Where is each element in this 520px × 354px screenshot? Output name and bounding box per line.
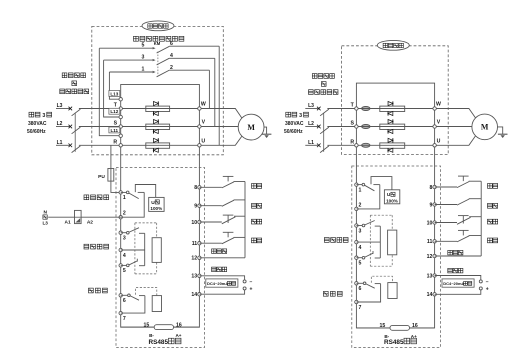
programmable relay coil (right) bbox=[388, 283, 397, 299]
label 3 bbox=[142, 55, 145, 61]
svg-text:15: 15 bbox=[144, 322, 150, 328]
svg-text:380VAC: 380VAC bbox=[28, 121, 47, 127]
svg-text:10: 10 bbox=[427, 220, 433, 226]
wire U to motor (right) bbox=[436, 136, 475, 145]
label RS485通信 (right) bbox=[384, 338, 416, 346]
svg-text:9: 9 bbox=[430, 202, 433, 208]
programmable relay coil (left) bbox=[152, 296, 161, 312]
svg-text:B-: B- bbox=[149, 333, 154, 338]
terminal 1 (right) bbox=[355, 183, 362, 193]
wire coil A2 to terminal 2 (left) bbox=[81, 216, 121, 218]
terminal 14 (left) bbox=[191, 292, 201, 298]
terminal 11 (right) bbox=[427, 239, 436, 245]
condition box U达100% (right) bbox=[384, 190, 399, 204]
label oval 主电路部 (left) bbox=[142, 21, 174, 31]
terminal 9 (left) bbox=[194, 204, 201, 210]
svg-text:+: + bbox=[486, 287, 489, 293]
terminal 7 (right) bbox=[355, 300, 362, 311]
svg-text:1: 1 bbox=[359, 187, 362, 193]
wire V to motor (right) bbox=[436, 126, 472, 128]
svg-text:L13: L13 bbox=[110, 91, 118, 96]
bypass contactor KM contact 3-4 (left) bbox=[104, 58, 215, 65]
main circuit dashed enclosure (right) bbox=[342, 46, 449, 155]
svg-text:+: + bbox=[250, 287, 253, 293]
wire terminal 14 to plus (right) bbox=[435, 290, 481, 294]
label RS485通信 (left) bbox=[149, 338, 181, 346]
label A1 bbox=[65, 219, 71, 225]
wire terminal 12 common (left) bbox=[199, 257, 245, 259]
wire terminal 13 to minus (right) bbox=[435, 276, 481, 280]
fault relay dashed outline (right) bbox=[370, 215, 392, 266]
terminal 5 (left) bbox=[119, 264, 126, 275]
svg-text:4: 4 bbox=[123, 253, 126, 259]
wire contact to U100% box (left) bbox=[135, 185, 155, 198]
wire W to motor (right) bbox=[436, 109, 475, 118]
contactor coil KM A1-A2 (left) bbox=[75, 210, 82, 223]
button common bus (right) bbox=[480, 181, 482, 256]
fault relay dashed outline (left) bbox=[135, 223, 157, 274]
svg-text:2: 2 bbox=[359, 202, 362, 208]
svg-text:2: 2 bbox=[170, 65, 173, 71]
terminal plus (right) bbox=[479, 287, 488, 293]
terminal 12 (left) bbox=[191, 256, 201, 262]
fault output contact 5 (right) bbox=[356, 251, 380, 259]
svg-text:L1: L1 bbox=[308, 140, 314, 146]
wire contact3 to L12 terminal bbox=[104, 60, 121, 117]
terminal T (right) bbox=[351, 103, 358, 111]
terminal L11 (left) bbox=[109, 127, 123, 137]
wire L2 input phase (right) bbox=[305, 125, 356, 134]
svg-text:S: S bbox=[114, 121, 118, 127]
svg-text:L11: L11 bbox=[110, 128, 118, 133]
label 公共端 analog (right) bbox=[448, 268, 463, 273]
label B- (left) bbox=[149, 333, 154, 338]
terminal V (left) bbox=[198, 120, 206, 129]
svg-text:13: 13 bbox=[191, 274, 197, 280]
terminal 6 (left) bbox=[119, 294, 126, 305]
svg-text:5: 5 bbox=[142, 43, 145, 49]
SCR module phase S (right) bbox=[380, 119, 405, 133]
terminal 12 (right) bbox=[427, 254, 437, 260]
fuse ellipse (right, y=126.5) bbox=[362, 125, 370, 129]
svg-text:14: 14 bbox=[191, 292, 197, 298]
analog output box DC4~20mA输出 (right) bbox=[442, 279, 474, 287]
terminal 14 (right) bbox=[427, 292, 437, 298]
svg-text:−: − bbox=[250, 279, 253, 285]
svg-text:A1: A1 bbox=[65, 219, 71, 225]
terminal U (right) bbox=[433, 138, 441, 147]
svg-text:U: U bbox=[201, 138, 205, 144]
label 15 (right) bbox=[380, 323, 386, 329]
svg-text:RS485: RS485 bbox=[149, 339, 169, 346]
svg-text:L3: L3 bbox=[43, 221, 49, 226]
label 50/60Hz (left) bbox=[27, 129, 46, 135]
condition box U达100% (left) bbox=[149, 197, 164, 211]
terminal W (left) bbox=[198, 102, 206, 111]
wire contact6 to U line bbox=[218, 46, 220, 145]
svg-text:R: R bbox=[350, 140, 354, 146]
bypass contactor KM contact 5-6 (left) bbox=[99, 46, 219, 53]
terminal V (right) bbox=[433, 120, 441, 129]
fault relay coil (right) bbox=[388, 230, 397, 255]
ground (left motor) bbox=[262, 134, 272, 138]
label 6 bbox=[170, 41, 173, 47]
svg-text:5: 5 bbox=[123, 268, 126, 274]
contactor mechanical linkage dashed (left) bbox=[157, 52, 159, 76]
terminal plus (left) bbox=[243, 287, 252, 293]
wire R to PU fuse bbox=[111, 145, 121, 192]
svg-text:RS485: RS485 bbox=[384, 339, 404, 346]
terminal minus (right) bbox=[479, 279, 488, 285]
svg-text:R: R bbox=[113, 140, 117, 146]
svg-text:12: 12 bbox=[191, 256, 197, 262]
svg-text:3: 3 bbox=[123, 236, 126, 242]
svg-text:3: 3 bbox=[359, 228, 362, 234]
terminal 11 (left) bbox=[192, 241, 201, 247]
reset button 复位 (right) bbox=[435, 176, 482, 188]
svg-text:2: 2 bbox=[123, 211, 126, 217]
svg-text:7: 7 bbox=[123, 316, 126, 322]
svg-text:8: 8 bbox=[430, 185, 433, 191]
circuit breaker QF linkage (left) bbox=[74, 113, 76, 152]
programmable relay dashed outline (right) bbox=[371, 276, 392, 283]
terminal 2 (right) bbox=[355, 202, 362, 210]
wire R to U (left) bbox=[122, 144, 197, 146]
label 配旁路电磁接触器 (left) bbox=[134, 36, 184, 41]
svg-text:L12: L12 bbox=[110, 109, 118, 114]
label N 或 L3 (left) bbox=[43, 210, 49, 226]
terminal 8 (left) bbox=[194, 185, 201, 191]
terminal 1 (left) bbox=[119, 191, 126, 202]
motor M (left) bbox=[238, 114, 264, 140]
wire contact to U100% box (right) bbox=[371, 177, 392, 190]
spare switch 备用 (left) bbox=[199, 200, 245, 206]
wire terminal 12 common (right) bbox=[435, 255, 482, 257]
label L1 (left) bbox=[57, 140, 63, 146]
svg-text:3: 3 bbox=[299, 113, 302, 119]
svg-text:M: M bbox=[481, 123, 489, 132]
svg-text:3: 3 bbox=[42, 113, 45, 119]
svg-text:M: M bbox=[247, 123, 255, 132]
terminal 10 (right) bbox=[427, 220, 437, 226]
button common bus (left) bbox=[244, 182, 246, 258]
svg-text:11: 11 bbox=[192, 241, 198, 247]
wire L3 input phase (left) bbox=[56, 107, 121, 116]
svg-text:V: V bbox=[202, 120, 206, 126]
wire motor to ground (left) bbox=[264, 127, 267, 134]
label 可编程 (right) bbox=[323, 291, 342, 296]
svg-text:14: 14 bbox=[427, 292, 433, 298]
fault output contact 3 (right) bbox=[356, 221, 380, 259]
svg-text:KM: KM bbox=[154, 41, 161, 46]
wire motor to ground (right) bbox=[498, 127, 503, 134]
label 380VAC (left) bbox=[28, 121, 47, 127]
control section dashed enclosure (left) bbox=[116, 168, 205, 348]
label 16 (left) bbox=[176, 322, 182, 328]
motor M (right) bbox=[472, 114, 498, 140]
svg-text:A2: A2 bbox=[87, 219, 93, 225]
wire R to U (right) bbox=[358, 144, 433, 146]
label 停止 (left) bbox=[252, 219, 262, 224]
wire contact5 to L11 terminal bbox=[99, 48, 120, 136]
terminal 13 (left) bbox=[191, 274, 201, 280]
start button 起动 (right) bbox=[435, 230, 482, 242]
main circuit dashed enclosure (left) bbox=[92, 26, 224, 154]
svg-text:V: V bbox=[437, 120, 441, 126]
wire L1 input phase (right) bbox=[305, 144, 356, 153]
wire W to motor (left) bbox=[201, 109, 242, 119]
programmable contact 6-7 (left) bbox=[121, 294, 145, 313]
svg-text:4: 4 bbox=[359, 245, 362, 251]
fault output contact 5 (left) bbox=[121, 259, 145, 267]
terminal R (right) bbox=[350, 140, 358, 148]
label KM bbox=[154, 41, 161, 46]
svg-text:100%: 100% bbox=[386, 198, 398, 203]
label 公共端 buttons (right) bbox=[448, 250, 463, 255]
label 公共端 analog (left) bbox=[212, 267, 227, 272]
fuse ellipse (right, y=108.5) bbox=[362, 107, 370, 111]
label A+ (right) bbox=[411, 334, 417, 339]
bypass output contact (left) bbox=[121, 191, 145, 217]
label L1 (right) bbox=[308, 140, 314, 146]
terminal 9 (right) bbox=[430, 202, 437, 208]
terminal 7 (left) bbox=[119, 311, 126, 322]
terminal R (left) bbox=[113, 140, 122, 148]
label 380VAC (right) bbox=[285, 121, 304, 127]
terminal W (right) bbox=[433, 102, 441, 111]
circuit breaker QF linkage (right) bbox=[323, 113, 325, 152]
fault output contact 3 (left) bbox=[121, 228, 145, 266]
reset button 复位 (left) bbox=[199, 176, 245, 188]
wire contact1 to L13 terminal bbox=[109, 72, 120, 99]
programmable relay dashed outline (left) bbox=[136, 288, 157, 296]
label L2 (left) bbox=[57, 121, 63, 127]
label 4 bbox=[170, 53, 173, 59]
terminal 4 (left) bbox=[119, 248, 126, 258]
bypass output contact (right) bbox=[356, 183, 379, 209]
svg-text:U: U bbox=[437, 138, 441, 144]
terminal T (left) bbox=[114, 103, 123, 111]
label 15 (left) bbox=[144, 322, 150, 328]
label 公共端 buttons (left) bbox=[212, 249, 227, 254]
terminal S (right) bbox=[350, 121, 358, 129]
svg-text:7: 7 bbox=[359, 305, 362, 311]
analog output box DC4~20mA输出 (left) bbox=[206, 279, 238, 287]
terminal 6 (right) bbox=[355, 282, 362, 293]
svg-text:380VAC: 380VAC bbox=[285, 121, 304, 127]
svg-text:1: 1 bbox=[123, 195, 126, 201]
wire contact2 to W line bbox=[208, 70, 210, 108]
label 16 (right) bbox=[412, 323, 418, 329]
termination resistor (right) bbox=[390, 325, 410, 330]
svg-text:W: W bbox=[201, 102, 206, 108]
svg-text:5: 5 bbox=[359, 261, 362, 267]
svg-text:50/60Hz: 50/60Hz bbox=[27, 129, 46, 135]
svg-text:50/60Hz: 50/60Hz bbox=[284, 129, 303, 135]
fuse PU (left) bbox=[98, 169, 114, 182]
label 停止 (right) bbox=[488, 219, 498, 224]
svg-text:L3: L3 bbox=[57, 103, 63, 109]
label 备用 (left) bbox=[252, 203, 262, 208]
fault output common wire 4 (right) bbox=[356, 241, 380, 243]
control section dashed enclosure (right) bbox=[352, 166, 441, 348]
label 故障输出 (right) bbox=[324, 238, 348, 243]
wire T to W (left) bbox=[122, 108, 197, 110]
terminal 5 (right) bbox=[355, 256, 362, 267]
svg-text:11: 11 bbox=[427, 239, 433, 245]
svg-text:100%: 100% bbox=[150, 206, 162, 211]
label 5 bbox=[142, 43, 145, 49]
svg-text:15: 15 bbox=[380, 323, 386, 329]
bypass contactor KM contact 1-2 (left) bbox=[109, 70, 209, 77]
label L2 (right) bbox=[308, 121, 314, 127]
label 50/60Hz (right) bbox=[284, 129, 303, 135]
label 配断路器 或 漏电断路器 (right) bbox=[309, 74, 338, 95]
svg-text:U: U bbox=[151, 200, 155, 206]
svg-text:W: W bbox=[436, 102, 441, 108]
label 配断路器 或 漏电断路器 (left) bbox=[60, 73, 89, 94]
SCR module phase T (left) bbox=[146, 101, 170, 115]
svg-text:3: 3 bbox=[142, 55, 145, 61]
terminal 3 (right) bbox=[355, 224, 362, 235]
wire terminal 14 to plus (left) bbox=[199, 290, 244, 294]
termination resistor (left) bbox=[154, 325, 173, 330]
wire U to motor (left) bbox=[201, 136, 242, 145]
label 可编程 (left) bbox=[89, 288, 108, 293]
ground (right motor) bbox=[498, 134, 508, 138]
label 复位 (right) bbox=[488, 184, 498, 189]
SCR module phase S (left) bbox=[146, 119, 170, 133]
stop button 停止 (right) bbox=[435, 216, 482, 225]
svg-text:DC4~20mA: DC4~20mA bbox=[443, 281, 464, 286]
bottom edge with terminals 15 16 (right) bbox=[356, 327, 434, 329]
svg-text:4: 4 bbox=[170, 53, 173, 59]
terminal L13 (left) bbox=[109, 91, 123, 101]
label 电源3相 (right) bbox=[286, 112, 309, 119]
terminal 4 (right) bbox=[355, 240, 362, 250]
wire L3 input phase (right) bbox=[305, 107, 356, 116]
svg-text:U: U bbox=[387, 192, 391, 198]
svg-text:−: − bbox=[486, 279, 489, 285]
svg-text:8: 8 bbox=[194, 185, 197, 191]
label 旁路输出 (left) bbox=[84, 195, 109, 200]
label 1 bbox=[142, 67, 145, 73]
label 电源3相 (left) bbox=[29, 112, 52, 119]
label oval 主电路部 (right) bbox=[377, 40, 409, 50]
svg-text:16: 16 bbox=[412, 323, 418, 329]
svg-text:12: 12 bbox=[427, 254, 433, 260]
terminal 8 (right) bbox=[430, 185, 437, 191]
svg-text:6: 6 bbox=[123, 298, 126, 304]
wire L2 input phase (left) bbox=[56, 125, 121, 134]
terminal S (left) bbox=[114, 121, 123, 129]
label B- (right) bbox=[384, 334, 389, 339]
fault output common wire 4 (left) bbox=[121, 249, 145, 251]
svg-text:1: 1 bbox=[142, 67, 145, 73]
terminal minus (left) bbox=[243, 279, 252, 285]
label L3 (left) bbox=[57, 103, 63, 109]
svg-text:DC4~20mA: DC4~20mA bbox=[207, 281, 228, 286]
SCR module phase R (right) bbox=[380, 138, 405, 152]
fault relay coil (left) bbox=[152, 238, 161, 263]
svg-text:PU: PU bbox=[98, 174, 105, 180]
stop button 停止 (left) bbox=[199, 215, 245, 224]
label 起动 (left) bbox=[252, 238, 262, 243]
wire contact4 to V line bbox=[214, 58, 216, 126]
fuse ellipse (right, y=145.3) bbox=[362, 143, 370, 147]
wire S to V (left) bbox=[122, 126, 197, 128]
terminal 3 (left) bbox=[119, 231, 126, 242]
svg-text:L2: L2 bbox=[57, 121, 63, 127]
label 备用 (right) bbox=[488, 203, 498, 208]
terminal 2 (left) bbox=[119, 211, 126, 219]
wire L1 input phase (left) bbox=[56, 144, 121, 153]
svg-text:L3: L3 bbox=[308, 103, 314, 109]
terminal 13 (right) bbox=[427, 273, 437, 279]
svg-text:6: 6 bbox=[359, 286, 362, 292]
wire terminal 13 to minus (left) bbox=[199, 276, 244, 280]
svg-text:L1: L1 bbox=[57, 140, 63, 146]
label A+ (left) bbox=[175, 333, 181, 338]
terminal U (left) bbox=[198, 138, 206, 147]
soft starter unit box (right) bbox=[356, 83, 434, 328]
svg-text:L2: L2 bbox=[308, 121, 314, 127]
SCR module phase R (left) bbox=[146, 138, 170, 152]
svg-text:6: 6 bbox=[170, 41, 173, 47]
programmable contact 6-7 (right) bbox=[356, 282, 380, 302]
SCR module phase T (right) bbox=[380, 101, 405, 115]
label L3 (right) bbox=[308, 103, 314, 109]
wire S to V (right) bbox=[358, 126, 433, 128]
soft starter unit box (left) bbox=[121, 85, 200, 328]
svg-text:16: 16 bbox=[176, 322, 182, 328]
terminal 10 (left) bbox=[191, 220, 201, 226]
start button 起动 (left) bbox=[199, 232, 245, 244]
label 故障输出 (left) bbox=[84, 244, 109, 249]
label 起动 (right) bbox=[488, 238, 498, 243]
svg-text:10: 10 bbox=[191, 220, 197, 226]
label A2 bbox=[87, 219, 93, 225]
wire T to W (right) bbox=[358, 108, 433, 110]
bottom edge with terminals 15 16 (left) bbox=[121, 326, 200, 328]
label 2 bbox=[170, 65, 173, 71]
svg-text:13: 13 bbox=[427, 273, 433, 279]
svg-text:9: 9 bbox=[194, 204, 197, 210]
spare switch 备用 (right) bbox=[435, 199, 482, 205]
svg-text:A+: A+ bbox=[175, 333, 181, 338]
wire V to motor (left) bbox=[201, 126, 238, 128]
svg-text:S: S bbox=[350, 121, 354, 127]
wire N to coil A1 (left) bbox=[48, 216, 74, 218]
terminal L12 (left) bbox=[109, 108, 123, 118]
label 复位 (left) bbox=[252, 184, 262, 189]
